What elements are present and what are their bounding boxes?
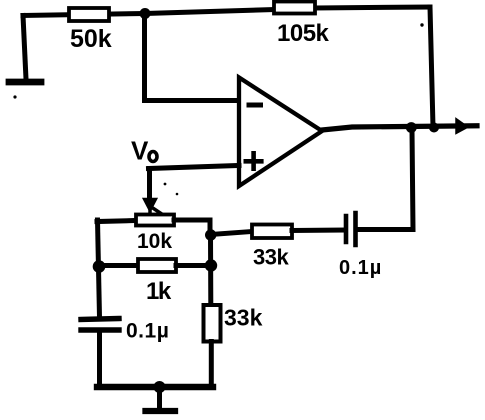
svg-text:50k: 50k — [70, 25, 112, 53]
svg-text:0.1µ: 0.1µ — [339, 257, 382, 279]
svg-text:33k: 33k — [224, 305, 263, 331]
op-amp plus sign — [246, 153, 261, 168]
ground bottom bar — [146, 408, 176, 414]
wire right vertical feedback from top — [430, 7, 433, 127]
junction 1k left node — [93, 260, 106, 273]
wire C2 to feedback vertical — [358, 130, 413, 230]
wire left branch vertical — [98, 220, 100, 317]
potentiometer R3 10k — [136, 215, 174, 226]
wire left vertical to ground — [23, 16, 26, 80]
wire to non-inverting input — [149, 166, 240, 169]
arrow output — [456, 119, 468, 134]
resistor R2 105k — [274, 2, 315, 14]
junction top feedback at output — [429, 123, 439, 133]
wire node A down to inverting input — [145, 14, 240, 101]
svg-text:V: V — [131, 136, 149, 166]
junction ground node — [154, 381, 166, 393]
wire left of pot — [97, 221, 136, 222]
wire op-amp output — [322, 126, 477, 130]
capacitor C1 0.1u plates — [81, 319, 119, 331]
label V0 subscript o — [149, 152, 157, 162]
junction 1k right node — [205, 259, 217, 271]
ground left — [9, 79, 41, 86]
wire right branch vertical upper — [208, 234, 213, 305]
wire C1 down — [97, 333, 102, 386]
wire node to R4 — [211, 232, 252, 235]
wire R6 down — [209, 342, 214, 387]
op-amp U1 — [239, 78, 322, 187]
op-amp minus sign — [249, 103, 261, 108]
junction output feedback — [406, 122, 417, 133]
wire left to R5 — [98, 263, 138, 268]
junction pot right node — [205, 229, 216, 240]
resistor R1 50k — [69, 8, 109, 21]
svg-text:105k: 105k — [277, 20, 330, 47]
wire V0 node down to wiper — [147, 169, 152, 200]
wire right of pot — [174, 220, 210, 233]
resistor R4 33k — [252, 225, 292, 239]
ground bottom stub — [157, 387, 162, 408]
scan speck — [176, 193, 179, 196]
wire bottom rail — [97, 384, 213, 390]
scan speck — [420, 23, 423, 26]
capacitor C2 0.1u plates — [346, 213, 356, 245]
resistor R5 1k — [138, 259, 176, 272]
scan speck — [13, 95, 16, 98]
potentiometer wiper arrow — [144, 199, 156, 211]
junction node A — [140, 8, 151, 19]
wire top rail — [23, 7, 430, 16]
svg-text:1k: 1k — [146, 278, 172, 305]
svg-text:10k: 10k — [137, 230, 172, 253]
wire R4 to C2 — [292, 228, 344, 234]
wire R5 to right node — [176, 263, 211, 268]
svg-text:33k: 33k — [253, 245, 289, 270]
scan speck — [164, 183, 167, 186]
resistor R6 33k vertical — [204, 305, 221, 342]
svg-text:0.1µ: 0.1µ — [126, 320, 169, 343]
